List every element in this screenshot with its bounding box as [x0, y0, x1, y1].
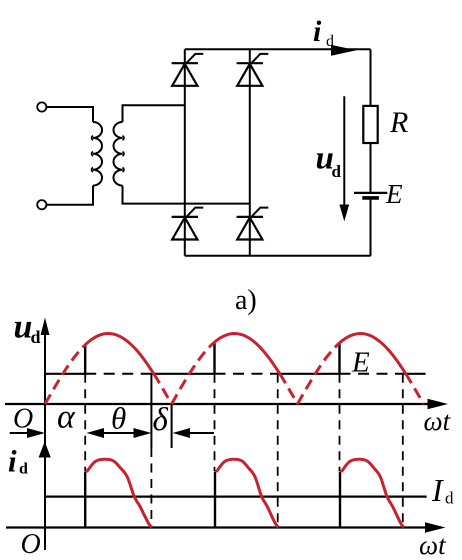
transformer secondary winding [113, 122, 122, 186]
transformer primary winding nubs [92, 136, 93, 172]
red sine solid hump 3 [340, 334, 406, 374]
wire primary bottom [46, 186, 93, 205]
ud axis vertical [44, 327, 46, 448]
id pulse edge 3 [339, 472, 341, 528]
ud axis horizontal [5, 403, 430, 405]
terminal top-left [37, 102, 46, 111]
wire secondary top to bridge [123, 105, 185, 122]
svg-text:d: d [326, 33, 334, 50]
wire top rail [185, 48, 371, 50]
thyristor VT1 (top left) [172, 62, 198, 64]
svg-text:d: d [31, 327, 41, 347]
svg-text:i: i [8, 444, 17, 479]
svg-text:d: d [445, 489, 454, 508]
red current pulse 2 [216, 459, 278, 527]
guide dashed at firing 3 [339, 374, 341, 471]
wire primary top [46, 107, 93, 122]
svg-text:I: I [431, 472, 444, 508]
battery E plate short [362, 196, 379, 200]
Id average line [45, 496, 427, 498]
red current pulse 1 [87, 459, 152, 527]
voltage arrow u_d [343, 96, 345, 206]
guide dashed extinction 1 (id plot) [150, 448, 152, 528]
svg-text:α: α [57, 399, 76, 436]
battery E plate long [354, 192, 387, 194]
svg-text:d: d [19, 461, 28, 478]
red sine dashed rise 3 [298, 343, 340, 404]
id axis vertical [44, 452, 46, 550]
id pulse edge 2 [214, 472, 216, 528]
wire battery to bottom rail [370, 198, 372, 256]
resistor R [363, 106, 377, 143]
svg-text:a): a) [235, 285, 257, 316]
thyristor VT4 (bottom left) [172, 216, 198, 218]
wire bridge left leg [184, 49, 186, 256]
guide dashed at extinction 3 [402, 374, 404, 524]
transformer primary winding [93, 122, 102, 186]
guide dashed at alpha firing [84, 374, 86, 471]
svg-text:ωt: ωt [419, 530, 447, 560]
dim arrow delta right [173, 428, 190, 438]
wire bottom rail [185, 255, 371, 257]
guide dashed at firing 2 [214, 374, 216, 471]
guide solid at pi line [171, 404, 173, 448]
transformer secondary winding nubs [123, 136, 124, 172]
terminal bottom-left [37, 200, 46, 209]
svg-text:E: E [385, 179, 403, 209]
dim arrow alpha left [10, 432, 27, 434]
red sine dashed fall 2 [280, 374, 298, 404]
red sine solid hump 2 [215, 334, 280, 374]
svg-text:O: O [21, 529, 41, 560]
red sine dashed rise 1 [45, 345, 85, 404]
ud jump at firing 3 [338, 343, 340, 374]
thyristor VT3 (top right) [237, 62, 263, 64]
wire top rail to resistor [370, 49, 372, 106]
red sine dashed rise 2 [172, 342, 215, 404]
guide dashed at extinction 2 [277, 374, 279, 528]
red sine dashed fall 1 [154, 374, 172, 404]
svg-text:ωt: ωt [424, 406, 452, 436]
svg-text:δ: δ [153, 402, 169, 438]
id axis horizontal [6, 526, 427, 528]
ud jump at firing 1 [84, 345, 86, 374]
id pulse edge 1 [84, 472, 86, 528]
E level dashed segments [85, 373, 151, 375]
ud jump at firing 2 [213, 342, 215, 374]
red sine dashed fall 3 [406, 374, 424, 404]
wire secondary bottom to bridge [123, 186, 250, 204]
wire bridge right leg [249, 49, 251, 256]
thyristor VT2 (bottom right) [237, 216, 263, 218]
svg-text:d: d [332, 162, 342, 181]
red sine solid hump 1 [85, 334, 154, 374]
E level solid segments [44, 373, 85, 375]
svg-text:E: E [351, 347, 370, 379]
svg-text:θ: θ [111, 401, 126, 436]
svg-text:R: R [389, 106, 408, 139]
wire resistor to battery [370, 143, 372, 193]
guide solid at extinction 1 [150, 374, 152, 448]
current arrow i_d [331, 45, 357, 56]
red current pulse 3 [341, 459, 403, 527]
svg-text:i: i [313, 15, 322, 48]
dim arrow theta [87, 428, 105, 438]
